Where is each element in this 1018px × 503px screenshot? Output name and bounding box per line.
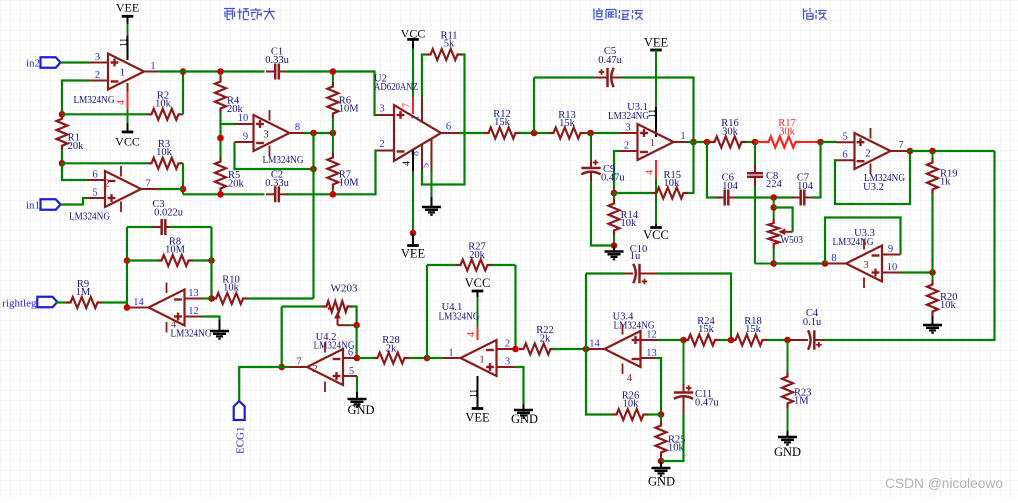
svg-text:3: 3 (263, 130, 268, 141)
svg-text:1: 1 (448, 348, 453, 359)
junction R19 top (929, 148, 936, 155)
svg-text:LM324NG: LM324NG (171, 329, 212, 340)
svg-text:3: 3 (505, 357, 510, 368)
svg-text:W203: W203 (331, 284, 358, 295)
resistor R14 (613, 193, 615, 199)
capacitor C3 (127, 226, 157, 228)
wire R3 right down to output2 (182, 163, 184, 194)
svg-text:10M: 10M (339, 104, 360, 115)
svg-text:1M: 1M (76, 287, 91, 298)
title notch 陷波 (804, 8, 814, 20)
wire node A to R2 (62, 113, 147, 115)
wire C1 to U2 pin3 (286, 72, 377, 116)
power VEE below U2 (407, 244, 419, 247)
junction R8 right (208, 257, 215, 264)
U2 pin 1 stub (RG) (421, 97, 423, 122)
svg-text:104: 104 (722, 181, 739, 192)
wire pin12 to ground (203, 317, 220, 321)
svg-text:10M: 10M (339, 178, 360, 189)
junction R25 bottom (658, 458, 665, 465)
svg-text:13: 13 (646, 348, 657, 359)
resistor R5 (215, 157, 226, 193)
svg-text:2: 2 (95, 70, 100, 81)
wire pin12 to C11 node (659, 339, 684, 341)
wire U2 pin4 to VEE (412, 171, 414, 233)
wire pin3 to ground (515, 367, 524, 404)
U2 pin 7 stub (412, 97, 414, 114)
junction U3.3 output (822, 260, 829, 267)
wire R2 right to output net (182, 72, 184, 115)
wire to U3.2 pin5 (821, 141, 837, 143)
svg-text:1: 1 (411, 115, 422, 120)
svg-text:15k: 15k (559, 118, 576, 129)
junction R23 top (784, 337, 791, 344)
junction C5 tap (531, 130, 538, 137)
capacitor C6 (716, 190, 738, 206)
potentiometer W203 (282, 305, 322, 307)
potentiometer W503 (773, 198, 775, 219)
op-amp A4 (LM324NG unit 4, left facing) (149, 290, 185, 326)
svg-text:1: 1 (150, 61, 155, 72)
svg-text:2: 2 (312, 363, 318, 375)
svg-text:GND: GND (774, 445, 801, 459)
wire right edge down to C4 (824, 151, 995, 340)
wire pin2 U3.1 to inverting node (614, 151, 620, 193)
wire VCC to pin4 (477, 297, 479, 327)
wire pin5 to GND (356, 376, 358, 392)
wire R4 to pin10 (221, 113, 236, 124)
wire output2 right (158, 188, 183, 190)
resistor R2 (147, 109, 183, 120)
pin 3 lead (90, 62, 108, 64)
wire C7 right up to pin5 net (812, 142, 821, 198)
pin 4/11 stubs op-amp2 (120, 166, 122, 177)
svg-text:13: 13 (188, 288, 199, 299)
svg-text:9: 9 (888, 244, 893, 255)
svg-text:11: 11 (648, 109, 658, 118)
svg-text:10k: 10k (223, 283, 240, 294)
junction R8 left (124, 257, 131, 264)
U3.3 feedback box (825, 218, 901, 264)
svg-text:6: 6 (348, 348, 353, 359)
svg-text:10k: 10k (668, 443, 685, 454)
resistor R15 (feedback) (652, 188, 688, 199)
junction pin13/R10 (208, 295, 215, 302)
wire R12 to R13 (520, 132, 549, 134)
pin 8 output lead (290, 132, 305, 134)
op-amp A2 (LM324NG unit 2) (105, 171, 141, 207)
U3.4 pin 13 lead (641, 357, 656, 359)
svg-text:7: 7 (296, 357, 301, 368)
U3.3 pin 9 lead (882, 254, 901, 256)
wire ECG1 to U4.2 output (239, 367, 282, 401)
U2 pin 2 lead (377, 150, 395, 152)
junction W503 top (770, 194, 777, 201)
svg-text:10M: 10M (165, 245, 186, 256)
svg-text:6: 6 (92, 170, 97, 181)
svg-text:1k: 1k (940, 177, 951, 188)
svg-text:2: 2 (379, 139, 384, 150)
U4.1 pin 3 lead (497, 366, 515, 368)
svg-text:4: 4 (645, 170, 656, 175)
svg-text:5: 5 (92, 188, 97, 199)
svg-text:14: 14 (133, 297, 144, 308)
svg-text:LM324NG: LM324NG (263, 155, 304, 166)
pin 10 lead (236, 123, 254, 125)
svg-text:6: 6 (446, 122, 451, 133)
U3.1 pin 4 stub to VCC (655, 160, 657, 178)
pin 6 lead (87, 179, 105, 181)
wire output2 net to C2 (183, 193, 265, 195)
pin 9 lead (235, 141, 254, 143)
wire pin10 to divider (901, 271, 933, 273)
wire W203 left down to output (281, 307, 283, 368)
resistor R7 (332, 133, 334, 153)
junction U3.4 output (583, 346, 590, 353)
svg-text:15k: 15k (745, 324, 762, 335)
junction W503 bottom (770, 260, 777, 267)
wire C10 right to R24/R18 node (657, 274, 732, 341)
U4.2 pin 5 lead (343, 375, 357, 377)
junction C9 tap (587, 130, 594, 137)
svg-text:20k: 20k (469, 250, 486, 261)
junction divider (929, 269, 936, 276)
svg-text:104: 104 (797, 181, 814, 192)
svg-text:in1: in1 (26, 200, 40, 212)
junction R17/C7 right (817, 139, 824, 146)
wire R8 left (127, 259, 157, 261)
power VCC below U3.1 (650, 226, 662, 229)
U3.1 pin 2 lead (620, 150, 638, 152)
svg-text:30k: 30k (779, 126, 796, 137)
U4.1 pin 1 output lead (443, 357, 461, 359)
U4.1 pin 11 stub to VEE (477, 376, 479, 409)
svg-text:7: 7 (402, 103, 413, 108)
wire C6 branch down (707, 142, 721, 198)
svg-text:8: 8 (831, 253, 836, 264)
wire R4/R5 mid (219, 124, 221, 157)
pin 4/11 stubs A4 (166, 283, 168, 294)
wire output U3.1 to R16 (688, 141, 710, 143)
svg-text:3: 3 (863, 259, 869, 271)
svg-text:1: 1 (120, 68, 125, 79)
wire R28 to U4.1 output (409, 357, 427, 359)
junction C11 top (680, 337, 687, 344)
resistor R12 (484, 128, 520, 139)
ground below pin12 (210, 320, 229, 339)
svg-text:AD620ANZ: AD620ANZ (374, 82, 418, 93)
svg-text:VEE: VEE (465, 411, 490, 425)
U3.2 feedback box (835, 151, 910, 204)
svg-text:2: 2 (505, 339, 510, 350)
pin 1 output lead (144, 71, 158, 73)
op-amp U4.1 (left facing) (461, 340, 497, 376)
svg-text:7: 7 (145, 179, 150, 190)
capacitor C11 (683, 340, 685, 384)
wire R15 right up to output (688, 142, 694, 193)
junction R16/R17 C8 top (752, 139, 759, 146)
svg-text:2k: 2k (386, 344, 397, 355)
wire VCC to U2 pin7 (412, 49, 414, 98)
junction VEE stub (410, 230, 417, 237)
junction R4-R5 (217, 135, 224, 142)
wire W203 to pin6 U4.2 (356, 325, 358, 358)
junction R5/C2 net (217, 191, 224, 198)
wire R18 to C4 (767, 339, 790, 341)
svg-text:0.33u: 0.33u (265, 178, 289, 189)
resistor R27 (feedback) (427, 264, 456, 266)
svg-text:2: 2 (104, 179, 109, 190)
W503 wiper loop (774, 208, 793, 232)
power VEE below U4.1 (472, 407, 484, 410)
U2 pin 3 lead (377, 114, 395, 116)
svg-text:CSDN @nicoleowo: CSDN @nicoleowo (885, 476, 1003, 491)
node B junction (59, 160, 66, 167)
ground below R14 (605, 246, 624, 260)
pin 11 stub op-amp1 (127, 36, 129, 61)
resistor R26 (feedback) (612, 409, 648, 420)
port in2 (41, 57, 61, 68)
wire rightleg to R9 (56, 301, 66, 303)
svg-text:12: 12 (646, 330, 657, 341)
resistor R8 (157, 255, 193, 266)
resistor R16 (710, 137, 746, 148)
title pre-amplifier 前级放大 (224, 9, 235, 20)
junction W203 wiper (353, 322, 360, 329)
wire node B to R3 (62, 162, 147, 164)
pin 5 lead (87, 197, 105, 199)
resistor R24 (684, 335, 720, 346)
wire pin9 feedback (235, 142, 314, 169)
svg-text:10k: 10k (155, 99, 172, 110)
ground below U4.1 pin3 (514, 404, 533, 418)
svg-text:10: 10 (887, 262, 898, 273)
capacitor C7 (792, 190, 814, 206)
capacitor C4 (790, 339, 808, 341)
capacitor C5 (feedback) (533, 78, 535, 134)
wire R13 to pin3 U3.1 (585, 132, 620, 134)
svg-text:rightleg: rightleg (2, 297, 37, 309)
ground below R23 (778, 431, 797, 445)
pin 14 output lead (127, 307, 149, 309)
wire in2 to pin3 (61, 61, 91, 63)
resistor R6 (332, 72, 334, 83)
U2 pin 5 stub (REF) (431, 139, 433, 171)
wire pin2 to node A (62, 81, 90, 115)
U3.2 pin 7 output lead (891, 150, 909, 152)
svg-text:10k: 10k (621, 218, 638, 229)
svg-text:LM324NG: LM324NG (608, 111, 649, 122)
wire R8 right (193, 259, 212, 261)
wire pin13 down to R26 (656, 358, 662, 415)
U3.4 pin 14 output lead (586, 348, 605, 350)
U3.1 pin 11 stub (655, 107, 657, 137)
svg-text:2: 2 (624, 141, 629, 152)
U3.1 pin 1 output lead (674, 141, 689, 143)
junction op4 output (124, 304, 131, 311)
wire C9 bottom to ground node (591, 182, 614, 246)
U2 pin 4 stub to VEE (412, 150, 414, 171)
pin 4/11 stubs U3.4 (622, 324, 624, 335)
wire R10 right up (248, 297, 314, 299)
svg-text:VEE: VEE (116, 1, 139, 15)
U3.3 output pin 8 lead (825, 263, 846, 265)
svg-text:LM324NG: LM324NG (439, 312, 480, 323)
wire right vertical C3/R8 (210, 227, 212, 299)
junction U4.2 output (278, 364, 285, 371)
svg-text:15k: 15k (698, 324, 715, 335)
op-amp U4.2 (left facing) (307, 349, 343, 385)
wire U2 pin5 to GND (431, 171, 433, 197)
U3.1 pin 3 lead (620, 132, 638, 134)
wire R9 to output node (102, 301, 127, 303)
junction R7 bottom / C2 net (330, 191, 337, 198)
svg-text:10k: 10k (940, 300, 957, 311)
wire pin13 to R10 (203, 297, 212, 299)
U4.2 pin 6 lead (343, 357, 357, 359)
svg-text:U3.2: U3.2 (863, 182, 884, 193)
resistor R3 (147, 158, 183, 169)
svg-text:ECG1: ECG1 (235, 427, 247, 455)
svg-text:LM324NG: LM324NG (69, 212, 110, 223)
wire node to R15 (614, 192, 652, 194)
junction output1/R2 (180, 68, 187, 75)
svg-text:8: 8 (295, 122, 300, 133)
svg-text:GND: GND (648, 475, 675, 489)
svg-text:0.47u: 0.47u (601, 173, 625, 184)
svg-text:VCC: VCC (643, 228, 669, 242)
wire node B to pin6 (62, 163, 87, 180)
svg-text:4: 4 (402, 161, 413, 166)
wire U3.2 output right (908, 150, 995, 152)
op-amp U3.4 (left facing) (605, 331, 641, 367)
svg-text:5: 5 (349, 366, 354, 377)
capacitor C8 (754, 142, 756, 164)
svg-text:0.47u: 0.47u (695, 398, 719, 409)
capacitor C10 (585, 274, 587, 350)
svg-text:10: 10 (238, 113, 249, 124)
U2 output pin 6 lead (441, 132, 459, 134)
op-amp U3.2 (855, 133, 891, 169)
svg-text:W503: W503 (781, 235, 804, 246)
svg-text:11: 11 (120, 38, 130, 47)
wire C6 to C7 (736, 196, 794, 198)
instrumentation amp U2 AD620ANZ (394, 105, 441, 161)
svg-text:14: 14 (589, 339, 600, 350)
resistor R10 (212, 293, 248, 304)
junction pin2/R22 (512, 346, 519, 353)
svg-text:9: 9 (243, 132, 248, 143)
junction inverting node U3.1 (611, 190, 618, 197)
wire C11 bottom to ground node (661, 414, 684, 461)
wire R11 left to pin1 (422, 55, 426, 98)
junction output U3.1 (690, 139, 697, 146)
resistor R9 (66, 297, 102, 308)
svg-text:2: 2 (865, 149, 870, 160)
svg-text:11: 11 (470, 389, 480, 398)
svg-text:20k: 20k (228, 179, 245, 190)
junction R6/R7 (330, 130, 337, 137)
U4.1 pin 2 lead (497, 348, 515, 350)
wire R27 right down to pin2 (514, 265, 516, 349)
wire R22 to U3.4 output (552, 348, 586, 350)
capacitor C9 (590, 133, 592, 160)
wire output1 to C1 (158, 70, 265, 72)
resistor R13 (549, 128, 585, 139)
svg-text:LM324NG: LM324NG (74, 95, 115, 106)
pin 4/11 stubs U3.2 (870, 128, 872, 139)
wire C2 to U2 pin2 (286, 151, 377, 195)
svg-text:10k: 10k (664, 178, 681, 189)
pin 4/11 stubs op-amp3 (269, 110, 271, 121)
resistor R25 (660, 415, 662, 422)
wire C3 left vertical (126, 227, 128, 308)
resistor R28 (373, 353, 409, 364)
capacitor C1 (266, 64, 288, 80)
wire output3 to R6/R7 node (304, 132, 333, 134)
svg-text:4: 4 (466, 332, 477, 337)
svg-text:12: 12 (188, 306, 199, 317)
wire R5 bottom (219, 193, 221, 194)
svg-text:5k: 5k (444, 39, 455, 50)
junction R4 top (217, 68, 224, 75)
svg-text:0.022u: 0.022u (154, 208, 184, 219)
pin 4/11 stubs U3.3 (863, 239, 865, 250)
pin 2 lead (90, 80, 108, 82)
wire R1 bottom to node B (61, 150, 63, 163)
junction U4.1 output (424, 355, 431, 362)
svg-text:6: 6 (842, 150, 847, 161)
U3.2 pin 6 lead (837, 159, 855, 161)
svg-text:GND: GND (347, 403, 374, 417)
svg-text:1: 1 (479, 354, 485, 366)
resistor R4 (220, 72, 222, 78)
wire bridge to U3.3 output (774, 262, 825, 264)
wire C8 bottom to bridge output (crossover) (754, 186, 756, 264)
resistor R11 (gain) (426, 49, 462, 60)
wire VEE to pin11 (127, 24, 129, 36)
svg-text:1M: 1M (794, 396, 809, 407)
pin 4 stub to VCC (127, 83, 129, 92)
junction R14 bottom (611, 242, 618, 249)
svg-text:VCC: VCC (465, 276, 491, 290)
pin 4/11 stubs U4.2 (324, 342, 326, 353)
wire U3.4 output down to R26 (586, 349, 612, 415)
wire output3 drop to R10 (312, 133, 314, 299)
svg-text:1: 1 (680, 131, 685, 142)
svg-text:VEE: VEE (401, 247, 426, 261)
svg-text:15k: 15k (494, 117, 511, 128)
title low-pass 低通滤波 (594, 8, 603, 20)
U4.1 pin 4 stub (477, 327, 479, 340)
svg-text:0.1u: 0.1u (803, 317, 822, 328)
resistor R1 (57, 114, 68, 150)
wire in1 to pin5 (61, 198, 88, 205)
resistor R20 (932, 273, 934, 281)
svg-text:5: 5 (842, 132, 847, 143)
U3.3 pin 10 lead (882, 272, 901, 274)
svg-text:7: 7 (898, 140, 903, 151)
ground below R25 (652, 461, 671, 476)
port in1 (41, 199, 61, 210)
svg-text:2k: 2k (540, 334, 551, 345)
wire U2 out to R12 (459, 132, 484, 134)
svg-text:3: 3 (379, 104, 384, 115)
wire R19 to R20 (931, 194, 933, 273)
capacitor C2 (266, 186, 288, 202)
svg-text:GND: GND (511, 412, 538, 426)
svg-text:10k: 10k (623, 399, 640, 410)
